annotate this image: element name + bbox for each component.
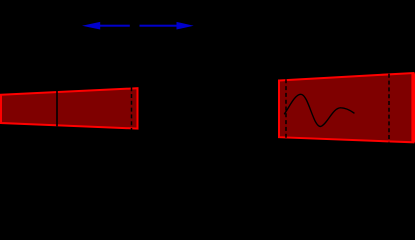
right edge face of right slab bbox=[411, 73, 415, 142]
damped sine acoustic wave inside right slab bbox=[285, 94, 355, 126]
blue gap arrow, right half with right head bbox=[140, 22, 194, 30]
blue gap arrow, left half with left head bbox=[82, 22, 130, 30]
right tapered crystal slab bbox=[279, 73, 414, 142]
svg-text:d: d bbox=[131, 18, 138, 32]
dashed divider line at x=131.5 (left slab) bbox=[131, 87, 133, 129]
dashed divider line at x=389 (right slab) bbox=[388, 74, 390, 142]
dashed divider line at x=286 (right slab) bbox=[285, 79, 287, 138]
dashed divider line at x=57 (left slab) bbox=[56, 91, 58, 127]
left tapered crystal slab bbox=[1, 88, 138, 128]
